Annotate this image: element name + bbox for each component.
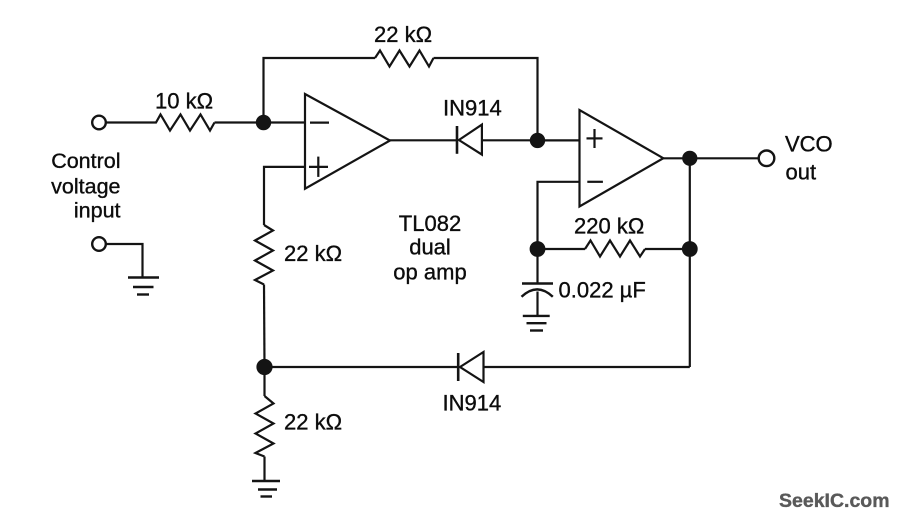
op-amp U1a (305, 94, 390, 189)
svg-text:voltage: voltage (51, 175, 120, 199)
wire R2 down to node B (434, 58, 538, 134)
U1a minus sign (310, 121, 329, 123)
svg-text:IN914: IN914 (443, 391, 502, 416)
wire C1 to ground (536, 292, 538, 316)
node F (258, 360, 272, 374)
resistor R1 10 kOhm (151, 115, 215, 131)
diode D1 triangle (459, 125, 482, 155)
terminal J1 control voltage input (92, 116, 106, 130)
svg-text:22 kΩ: 22 kΩ (374, 22, 432, 47)
svg-text:SeekIC.com: SeekIC.com (779, 490, 890, 512)
wire J3 to ground G1 (106, 244, 143, 278)
terminal J2 VCO out (759, 151, 775, 167)
wire diode D2 to output rail (484, 366, 690, 368)
wire U1b output to terminal (663, 157, 758, 159)
node C (531, 242, 545, 256)
wire bottom rail left of diode D2 (265, 366, 459, 368)
svg-text:0.022 µF: 0.022 µF (559, 278, 646, 303)
svg-text:TL082: TL082 (399, 211, 461, 236)
terminal J3 input return (92, 237, 106, 251)
svg-text:220 kΩ: 220 kΩ (574, 214, 644, 239)
svg-text:dual: dual (409, 235, 451, 260)
wire R5 to ground (263, 457, 265, 482)
node B (531, 134, 544, 147)
resistor R2 22 kOhm feedback (375, 51, 434, 67)
wire node C to capacitor C1 (536, 249, 538, 284)
node D output (683, 152, 696, 165)
resistor R5 22 kOhm vertical (256, 396, 274, 457)
ground G3 (252, 480, 280, 482)
wire node F to R5 (263, 367, 265, 396)
svg-text:out: out (786, 160, 817, 185)
svg-text:22 kΩ: 22 kΩ (284, 410, 342, 435)
capacitor C1 bottom plate (522, 289, 553, 296)
ground G2 (523, 315, 550, 317)
svg-text:op amp: op amp (393, 260, 466, 285)
node E (683, 242, 697, 256)
resistor R4 220 kOhm (585, 241, 645, 257)
wire U1a output to diode D1 (390, 139, 457, 141)
diode D1 cathode bar (456, 126, 459, 154)
U1b plus sign (587, 137, 603, 139)
op-amp U1b (580, 110, 664, 207)
svg-text:Control: Control (51, 149, 120, 173)
resistor R3 22 kOhm vertical (255, 225, 273, 285)
wire U1b inverting input down to node C (538, 182, 580, 249)
svg-text:input: input (74, 199, 121, 223)
svg-text:IN914: IN914 (443, 96, 502, 121)
wire output rail down (689, 158, 691, 367)
wire J1 to R1 (106, 121, 151, 123)
svg-text:22 kΩ: 22 kΩ (284, 241, 342, 266)
node A (summing junction) (257, 116, 270, 129)
wire node A up to feedback resistor R2 (264, 58, 376, 123)
diode D2 triangle (460, 352, 484, 382)
wire node C to R4 (538, 248, 586, 250)
svg-text:10 kΩ: 10 kΩ (155, 89, 213, 114)
wire R4 to node E (645, 248, 690, 250)
wire R1 to op-amp U1a inverting input (215, 121, 306, 123)
wire node B to U1b noninverting input (538, 139, 580, 141)
U1a plus sign (309, 166, 328, 168)
wire R3 to node F (263, 285, 266, 368)
wire D1 to node B (482, 139, 538, 141)
wire U1a noninverting input to R3 (264, 167, 305, 225)
diode D2 cathode bar (457, 353, 460, 381)
ground G1 (128, 276, 159, 278)
U1b minus sign (587, 181, 603, 183)
svg-text:VCO: VCO (785, 132, 833, 157)
capacitor C1 top plate (522, 282, 553, 285)
